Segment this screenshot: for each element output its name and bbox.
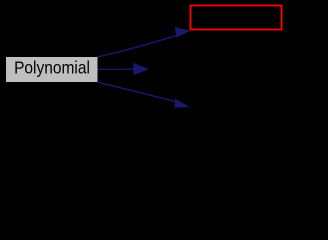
edge 1: wire from Polynomial to red node [98,27,191,57]
node truncated (red-bordered box, top right) [191,6,282,30]
edge 1 arrowhead [175,27,191,37]
edge 3 arrowhead [175,99,190,108]
edge 2: horizontal wire from Polynomial to middle node [98,63,150,75]
edge 3: wire from Polynomial to bottom node [98,82,190,108]
edge 2 arrowhead [133,63,149,75]
svg-text:Polynomial: Polynomial [14,58,90,78]
node Polynomial (current class, grey filled box) [6,57,98,82]
